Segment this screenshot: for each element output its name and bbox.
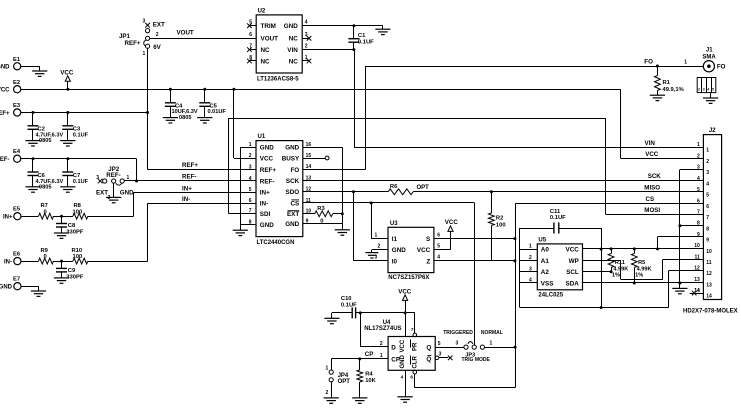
svg-text:NC: NC bbox=[261, 47, 271, 54]
capacitor C8 bbox=[61, 216, 63, 223]
svg-text:JP1: JP1 bbox=[119, 33, 131, 40]
svg-text:5: 5 bbox=[697, 187, 700, 193]
capacitor C1 bbox=[353, 26, 355, 39]
svg-text:0.01UF: 0.01UF bbox=[208, 109, 227, 115]
vertical net S/NORMAL/CLR bbox=[515, 203, 517, 387]
svg-text:Q: Q bbox=[426, 356, 431, 363]
U5 left pin stubs bbox=[520, 249, 538, 251]
wire JP2 pin2 to ground bbox=[113, 183, 115, 197]
ground at U1 right bus bbox=[342, 224, 344, 230]
svg-text:R6: R6 bbox=[390, 184, 398, 190]
U4 CLR pin bottom bbox=[413, 370, 417, 374]
svg-text:U1: U1 bbox=[258, 134, 266, 140]
svg-text:REF-: REF- bbox=[260, 178, 275, 185]
svg-text:4: 4 bbox=[707, 88, 709, 92]
svg-text:GND: GND bbox=[120, 190, 134, 197]
terminal E5 (IN+) bbox=[14, 213, 21, 220]
wire IN- line bbox=[148, 203, 256, 205]
svg-text:4: 4 bbox=[305, 20, 308, 26]
resistor R1 bbox=[657, 66, 659, 76]
svg-text:24LC025: 24LC025 bbox=[538, 293, 563, 299]
svg-text:NORMAL: NORMAL bbox=[481, 330, 503, 336]
svg-text:NC: NC bbox=[289, 58, 299, 65]
svg-text:2: 2 bbox=[156, 32, 159, 38]
svg-text:100: 100 bbox=[496, 222, 506, 228]
eeprom U5 box bbox=[537, 244, 582, 290]
wire U5 SDA to J2 pin13 bbox=[583, 282, 704, 284]
resistor R5 bbox=[634, 249, 636, 254]
svg-text:WP: WP bbox=[569, 258, 579, 265]
wire VCC rail to J2 pin2 bbox=[620, 89, 622, 158]
svg-text:0805: 0805 bbox=[179, 115, 191, 121]
svg-text:SCL: SCL bbox=[566, 269, 579, 276]
svg-text:6V: 6V bbox=[153, 44, 161, 51]
svg-text:EXT: EXT bbox=[153, 22, 165, 29]
svg-text:C1: C1 bbox=[358, 33, 366, 39]
wire JP1 pin1 down to REF+ line bbox=[147, 48, 149, 170]
svg-text:3: 3 bbox=[249, 165, 252, 171]
ground at C10 bbox=[331, 313, 333, 318]
svg-text:GND: GND bbox=[0, 65, 10, 71]
svg-text:IN+: IN+ bbox=[260, 190, 270, 197]
svg-text:J1: J1 bbox=[706, 48, 713, 54]
wire IN+ riser bbox=[133, 192, 135, 216]
terminal E3 (REF+) bbox=[14, 109, 21, 116]
VCC symbol above U4 bbox=[405, 300, 407, 313]
ground at C3 bbox=[60, 141, 75, 146]
svg-text:0.1UF: 0.1UF bbox=[73, 133, 89, 139]
svg-text:11: 11 bbox=[706, 260, 712, 266]
svg-text:A1: A1 bbox=[541, 258, 550, 265]
resistor R4 bbox=[359, 359, 361, 370]
wire ring to J2 pin12 bbox=[668, 271, 670, 308]
svg-text:C8: C8 bbox=[68, 223, 76, 229]
svg-text:8: 8 bbox=[249, 55, 252, 61]
svg-text:IN-: IN- bbox=[182, 196, 190, 203]
svg-text:NC: NC bbox=[289, 36, 299, 43]
svg-text:4: 4 bbox=[249, 176, 252, 182]
svg-text:OPT: OPT bbox=[417, 185, 430, 191]
svg-text:4: 4 bbox=[401, 375, 404, 380]
svg-text:2: 2 bbox=[698, 88, 700, 92]
svg-text:6: 6 bbox=[410, 375, 413, 380]
wire CS line left bbox=[303, 202, 475, 204]
svg-text:FO: FO bbox=[717, 64, 726, 71]
svg-text:8: 8 bbox=[706, 226, 709, 232]
svg-text:REF+: REF+ bbox=[260, 167, 277, 174]
svg-text:VCC: VCC bbox=[566, 247, 580, 254]
svg-text:2: 2 bbox=[380, 341, 383, 347]
svg-text:U2: U2 bbox=[258, 9, 266, 15]
U3 pin2 GND stub bbox=[372, 249, 388, 251]
svg-text:0: 0 bbox=[44, 254, 47, 260]
svg-text:E5: E5 bbox=[13, 207, 21, 213]
resistor R10 bbox=[62, 261, 73, 263]
capacitor C3 bbox=[67, 113, 69, 126]
svg-text:A2: A2 bbox=[541, 269, 550, 276]
svg-text:TRIGGERED: TRIGGERED bbox=[443, 330, 473, 336]
svg-text:13: 13 bbox=[706, 282, 712, 288]
jumper JP1 REF+ bbox=[145, 23, 150, 28]
mux U3 box bbox=[388, 227, 434, 272]
svg-text:E2: E2 bbox=[13, 80, 20, 86]
capacitor C2 bbox=[32, 113, 34, 126]
resistor R9 bbox=[39, 258, 54, 264]
svg-text:R10: R10 bbox=[72, 248, 83, 254]
jumper JP4 OPT bbox=[331, 359, 333, 370]
svg-text:Q: Q bbox=[426, 345, 431, 352]
svg-text:E4: E4 bbox=[13, 149, 21, 155]
svg-text:5: 5 bbox=[249, 20, 252, 26]
wire VIN net to J2 pin 1 bbox=[354, 50, 356, 148]
svg-text:1: 1 bbox=[326, 366, 329, 372]
svg-text:PR: PR bbox=[412, 342, 418, 351]
ground at C8 bbox=[54, 233, 69, 238]
ground at J1 shield bbox=[710, 93, 712, 98]
svg-text:2: 2 bbox=[249, 153, 252, 159]
svg-text:3: 3 bbox=[143, 19, 146, 25]
U3 pin1 I1 stub bbox=[371, 238, 388, 240]
svg-text:VOUT: VOUT bbox=[261, 36, 279, 43]
svg-text:REF+: REF+ bbox=[0, 111, 10, 117]
svg-text:IN+: IN+ bbox=[182, 185, 192, 192]
ground at J2 bus bbox=[679, 283, 681, 288]
svg-text:1: 1 bbox=[684, 59, 687, 65]
svg-text:SCK: SCK bbox=[286, 178, 300, 185]
svg-text:R9: R9 bbox=[41, 248, 49, 254]
svg-text:LT1236ACS8-5: LT1236ACS8-5 bbox=[257, 77, 299, 83]
svg-text:IN+: IN+ bbox=[3, 215, 13, 221]
svg-text:JP4: JP4 bbox=[338, 373, 349, 379]
svg-text:7: 7 bbox=[706, 215, 709, 221]
ground at U1 pin8 bbox=[240, 225, 242, 231]
svg-text:0.1UF: 0.1UF bbox=[341, 302, 357, 308]
svg-text:1: 1 bbox=[143, 51, 146, 57]
U1 pin1 stub bbox=[240, 147, 256, 149]
svg-text:R3: R3 bbox=[317, 206, 325, 212]
ground at C9 bbox=[54, 278, 69, 283]
svg-text:11: 11 bbox=[695, 254, 701, 260]
svg-text:NC7SZ157P6X: NC7SZ157P6X bbox=[388, 275, 429, 281]
svg-text:VCC: VCC bbox=[0, 88, 10, 94]
ground at R1 bbox=[650, 95, 665, 100]
svg-text:12: 12 bbox=[706, 271, 712, 277]
J2 ground bus bbox=[679, 170, 681, 283]
ground at C4 bbox=[163, 118, 178, 123]
svg-text:VSS: VSS bbox=[541, 281, 554, 288]
svg-text:HD2X7-078-MOLEX: HD2X7-078-MOLEX bbox=[683, 308, 738, 314]
svg-text:1: 1 bbox=[305, 55, 308, 61]
capacitor C11 bbox=[554, 223, 559, 234]
wire CS to JP3 middle bbox=[474, 203, 476, 345]
svg-text:49.9,1%: 49.9,1% bbox=[663, 87, 684, 93]
svg-text:VCC: VCC bbox=[60, 70, 74, 77]
svg-text:VIN: VIN bbox=[287, 47, 298, 54]
jumper JP2 REF- bbox=[98, 179, 103, 184]
svg-text:2: 2 bbox=[697, 153, 700, 159]
J2 pin14 stub NC bbox=[690, 293, 704, 295]
svg-text:3: 3 bbox=[529, 266, 532, 272]
svg-text:TRIG MODE: TRIG MODE bbox=[462, 357, 491, 363]
svg-text:3: 3 bbox=[703, 88, 705, 92]
wire J2 pin9 jog bbox=[657, 237, 659, 249]
svg-text:S: S bbox=[426, 236, 430, 243]
wire VCC rail to U1 pin2 bbox=[232, 88, 235, 91]
svg-text:1: 1 bbox=[706, 148, 709, 154]
svg-text:3: 3 bbox=[706, 170, 709, 176]
U3 pin3 I0 stub bbox=[354, 260, 389, 262]
svg-text:VOUT: VOUT bbox=[177, 30, 194, 37]
svg-text:FO: FO bbox=[644, 59, 653, 66]
svg-text:U4: U4 bbox=[383, 320, 391, 326]
wire CP line bbox=[331, 358, 388, 360]
svg-text:2: 2 bbox=[378, 243, 381, 249]
svg-text:VIN: VIN bbox=[645, 140, 656, 147]
op-amp U2 box bbox=[256, 15, 302, 73]
svg-text:9: 9 bbox=[697, 232, 700, 238]
svg-text:1: 1 bbox=[490, 341, 493, 347]
wire IN- riser bbox=[147, 203, 149, 261]
svg-text:4: 4 bbox=[697, 176, 700, 182]
svg-text:E7: E7 bbox=[13, 277, 20, 283]
svg-text:4: 4 bbox=[706, 181, 709, 187]
svg-text:R8: R8 bbox=[74, 203, 82, 209]
jumper JP3 TRIG MODE bbox=[464, 345, 468, 349]
U5 ground ring left bbox=[519, 228, 521, 308]
wire SCK line bbox=[303, 180, 704, 182]
svg-text:1: 1 bbox=[697, 142, 700, 148]
svg-text:GND: GND bbox=[285, 221, 299, 228]
U4 pin3 Qbar bbox=[435, 356, 439, 360]
U3 pin6 S wire bbox=[434, 238, 515, 240]
svg-text:BUSY: BUSY bbox=[282, 155, 300, 162]
svg-text:E6: E6 bbox=[13, 252, 21, 258]
wire SDO/MISO line bbox=[303, 191, 388, 193]
svg-text:VCC: VCC bbox=[645, 151, 659, 158]
svg-text:Z: Z bbox=[426, 258, 430, 265]
ground at C5 bbox=[197, 118, 212, 123]
resistor R7 bbox=[39, 213, 54, 219]
svg-text:VCC: VCC bbox=[398, 289, 412, 296]
svg-text:5: 5 bbox=[438, 341, 441, 347]
U1 pin1-pin8 GND vertical bbox=[240, 147, 242, 224]
svg-text:1%: 1% bbox=[635, 273, 643, 279]
U5 ring top right segment bbox=[559, 228, 601, 230]
U5 ring right vertical bbox=[601, 228, 603, 308]
U4 GND pin bottom bbox=[405, 370, 407, 397]
svg-text:C9: C9 bbox=[68, 268, 76, 274]
svg-text:C11: C11 bbox=[550, 209, 561, 215]
svg-text:FO: FO bbox=[290, 167, 299, 174]
svg-text:1: 1 bbox=[529, 244, 532, 250]
U5 ring bottom bbox=[520, 307, 669, 309]
U1 right ground bus bbox=[342, 147, 344, 224]
svg-text:10: 10 bbox=[706, 249, 712, 255]
VCC symbol on rail bbox=[66, 88, 69, 91]
svg-text:100: 100 bbox=[73, 254, 83, 260]
svg-text:REF-: REF- bbox=[106, 172, 120, 179]
svg-text:SDO: SDO bbox=[286, 189, 300, 196]
ground at U2 GND bbox=[382, 26, 384, 30]
svg-text:VCC: VCC bbox=[400, 339, 406, 352]
svg-text:CS: CS bbox=[646, 196, 655, 203]
svg-text:U5: U5 bbox=[538, 238, 546, 244]
wire JP4 to ground bbox=[331, 382, 333, 398]
svg-text:CP: CP bbox=[365, 351, 374, 358]
wire U5 WP to J2 pin11 bbox=[583, 260, 621, 262]
svg-text:IN-: IN- bbox=[4, 260, 12, 266]
svg-text:4: 4 bbox=[529, 278, 532, 284]
svg-text:REF-: REF- bbox=[182, 173, 196, 180]
U2 pin 2 VIN wire bbox=[302, 49, 354, 51]
svg-text:SDA: SDA bbox=[566, 281, 580, 288]
ground at E7 bbox=[38, 286, 40, 291]
svg-text:R1: R1 bbox=[663, 80, 671, 86]
U5 ring top left segment bbox=[520, 228, 554, 230]
svg-text:3: 3 bbox=[305, 32, 308, 38]
U2 pin 3 NC stub bbox=[302, 38, 308, 40]
svg-text:E3: E3 bbox=[13, 103, 21, 109]
svg-text:GND: GND bbox=[260, 145, 274, 152]
VCC rail wire bbox=[21, 89, 621, 91]
U4 VCC pin top bbox=[405, 313, 407, 337]
svg-text:3: 3 bbox=[375, 255, 378, 261]
wire E4 down to REF- line bbox=[136, 159, 138, 181]
wire U5 VCC row bbox=[583, 248, 704, 250]
flip-flop U4 box bbox=[388, 337, 435, 371]
svg-text:0.1UF: 0.1UF bbox=[358, 40, 374, 46]
svg-text:R7: R7 bbox=[41, 203, 48, 209]
svg-text:0805: 0805 bbox=[39, 184, 51, 190]
svg-text:14: 14 bbox=[306, 164, 312, 170]
J1 shield pins bbox=[697, 78, 716, 93]
svg-text:EXT: EXT bbox=[96, 190, 108, 197]
svg-text:VCC: VCC bbox=[445, 219, 459, 226]
wire C10 junction to U4 D bbox=[360, 313, 362, 347]
svg-text:4: 4 bbox=[437, 255, 440, 261]
svg-text:14: 14 bbox=[706, 294, 712, 300]
U1 pin15 BUSY stub bbox=[303, 158, 325, 160]
svg-text:1%: 1% bbox=[612, 273, 620, 279]
svg-text:D: D bbox=[391, 345, 396, 352]
svg-text:3: 3 bbox=[96, 175, 99, 181]
wire REF- line bbox=[124, 180, 256, 182]
svg-text:7: 7 bbox=[249, 44, 252, 50]
svg-text:3: 3 bbox=[456, 341, 459, 347]
wire U5 SCL row bbox=[583, 271, 612, 273]
capacitor C9 bbox=[61, 261, 63, 268]
svg-text:GND: GND bbox=[260, 222, 274, 229]
wire SDI/MOSI net bbox=[228, 118, 230, 213]
J2 pin3 stub to bus bbox=[680, 169, 704, 171]
svg-text:R4: R4 bbox=[365, 371, 373, 377]
terminal E1 (GND) bbox=[14, 63, 21, 70]
svg-text:1: 1 bbox=[375, 232, 378, 238]
svg-text:REF-: REF- bbox=[0, 157, 10, 163]
connector J2 box bbox=[703, 135, 721, 300]
svg-text:MOSI: MOSI bbox=[644, 207, 660, 214]
U1 pin8 stub bbox=[240, 224, 256, 226]
svg-text:5: 5 bbox=[706, 193, 709, 199]
svg-text:A0: A0 bbox=[541, 247, 550, 254]
svg-text:2: 2 bbox=[305, 44, 308, 50]
svg-text:E1: E1 bbox=[13, 57, 21, 63]
svg-text:SMA: SMA bbox=[702, 55, 716, 61]
wire IN+ line bbox=[134, 192, 256, 194]
svg-text:9: 9 bbox=[706, 238, 709, 244]
ground at U3 pin2 bbox=[371, 250, 373, 253]
U2 pin 4 GND wire bbox=[302, 25, 383, 27]
svg-text:CP: CP bbox=[391, 357, 400, 364]
wire REF+ line bbox=[148, 169, 256, 171]
svg-text:100: 100 bbox=[73, 209, 83, 215]
svg-text:7: 7 bbox=[411, 327, 414, 332]
wire FO net bbox=[303, 169, 366, 171]
svg-text:2: 2 bbox=[706, 159, 709, 165]
svg-text:GND: GND bbox=[285, 145, 299, 152]
resistor R2 bbox=[491, 192, 493, 213]
capacitor C7 bbox=[67, 159, 69, 172]
svg-text:GND: GND bbox=[284, 23, 298, 30]
svg-text:6: 6 bbox=[249, 32, 252, 38]
capacitor C10 bbox=[332, 312, 352, 314]
svg-text:EXT: EXT bbox=[287, 211, 299, 218]
svg-text:REF+: REF+ bbox=[125, 40, 141, 47]
svg-text:LTC2440CGN: LTC2440CGN bbox=[257, 240, 295, 246]
svg-text:R2: R2 bbox=[496, 215, 503, 221]
resistor R8 bbox=[62, 216, 73, 218]
ground at E1 bbox=[39, 66, 41, 71]
svg-text:12: 12 bbox=[694, 266, 700, 272]
svg-text:CS: CS bbox=[290, 200, 299, 207]
svg-text:NL17SZ74US: NL17SZ74US bbox=[364, 326, 401, 332]
svg-text:GND: GND bbox=[392, 247, 406, 254]
svg-text:14: 14 bbox=[694, 288, 700, 294]
wire CS to U3 I1 bbox=[371, 203, 373, 239]
svg-text:0: 0 bbox=[44, 209, 47, 215]
svg-text:15: 15 bbox=[306, 153, 312, 159]
J2 pin8 stub bbox=[680, 225, 704, 227]
svg-text:TRIM: TRIM bbox=[261, 23, 276, 30]
svg-text:7: 7 bbox=[697, 209, 700, 215]
svg-text:6: 6 bbox=[706, 204, 709, 210]
svg-text:I1: I1 bbox=[392, 236, 398, 243]
ground at U4 GND bbox=[398, 397, 413, 402]
svg-text:0.1UF: 0.1UF bbox=[73, 179, 89, 185]
wire SDO to U3 I0 bbox=[353, 192, 355, 261]
svg-text:6: 6 bbox=[437, 232, 440, 238]
terminal E7 (GND) bbox=[14, 283, 21, 290]
svg-text:VCC: VCC bbox=[417, 247, 431, 254]
svg-text:SCK: SCK bbox=[648, 173, 662, 180]
svg-text:10K: 10K bbox=[365, 378, 376, 384]
U2 pin 7 NC stub bbox=[250, 49, 256, 51]
U1 pin16 GND stub bbox=[303, 147, 343, 149]
svg-text:C10: C10 bbox=[341, 296, 352, 302]
U2 pin 1 NC stub bbox=[302, 60, 308, 62]
svg-text:IN-: IN- bbox=[260, 201, 268, 208]
svg-text:J2: J2 bbox=[709, 128, 716, 134]
svg-text:5: 5 bbox=[712, 88, 714, 92]
U1 pin9 GND stub bbox=[303, 223, 343, 225]
ground at R4 bbox=[352, 398, 367, 403]
terminal E4 (REF-) bbox=[14, 155, 21, 162]
svg-text:SDI: SDI bbox=[260, 211, 271, 218]
wire CS line right bbox=[515, 203, 703, 205]
svg-text:4.99K: 4.99K bbox=[637, 266, 652, 272]
resistor R6 bbox=[388, 189, 413, 195]
terminal E2 (VCC) bbox=[14, 86, 21, 93]
